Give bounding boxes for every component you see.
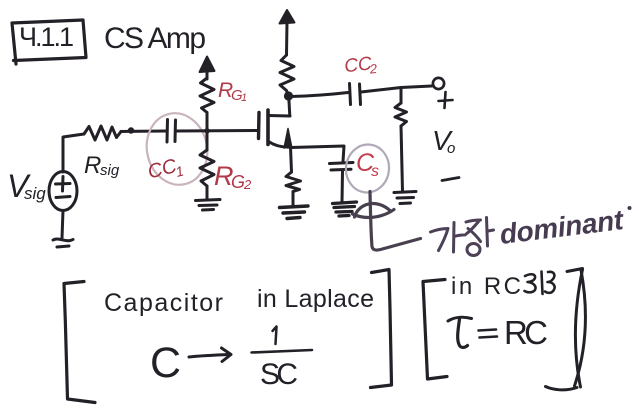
formula C [150, 339, 181, 387]
formula text in RC [451, 273, 521, 300]
formula bracket left [64, 282, 95, 403]
capacitor CC1 [167, 120, 176, 143]
voltage source Vsig [49, 172, 77, 211]
ground (source) [53, 239, 73, 247]
svg-text:CS Amp: CS Amp [104, 22, 206, 55]
svg-text:2: 2 [368, 61, 379, 77]
svg-text:s: s [371, 163, 379, 180]
resistor RL [395, 103, 407, 126]
svg-text:in RC: in RC [451, 273, 521, 300]
wire CC1 to gate [176, 129, 258, 133]
svg-text:G: G [231, 172, 245, 192]
wire source to RS [291, 147, 292, 172]
label Vsig [7, 168, 46, 204]
wire CS to ground [341, 172, 345, 203]
title label 4.1.1 [19, 22, 74, 52]
label CC1 [145, 154, 185, 187]
annotation circle around CC1 [140, 108, 214, 191]
wire source to CS [291, 146, 344, 162]
ground (RG2) [196, 200, 221, 211]
resistor RD [280, 55, 294, 96]
annotation arrow line [370, 192, 421, 251]
formula text 회로 (hangul strokes) [525, 272, 555, 295]
svg-text:sig: sig [100, 162, 120, 179]
output terminal [433, 78, 444, 89]
capacitor CS [330, 163, 354, 171]
formula tau [448, 317, 472, 347]
wire RG1 to RG2 [206, 113, 209, 151]
resistor RG1 [200, 78, 214, 113]
label + [439, 92, 453, 108]
wire Rsig to CC1 [121, 130, 166, 134]
formula bracket 2 right [546, 269, 586, 390]
label minus [442, 178, 459, 181]
ground (RS) [280, 206, 309, 219]
node input junction [128, 127, 134, 133]
label Rsig [84, 152, 120, 179]
svg-text:Capacitor: Capacitor [104, 289, 223, 317]
label RG1 [218, 79, 247, 104]
svg-text:SC: SC [260, 358, 298, 391]
svg-text:2: 2 [243, 177, 252, 192]
annotation arrow head under CS [353, 204, 395, 218]
svg-text:dominant: dominant [498, 204, 627, 250]
capacitor CC2 [350, 84, 361, 105]
resistor RS [286, 172, 301, 192]
ground (RL) [394, 192, 416, 204]
svg-text:RC: RC [504, 314, 548, 351]
wire Vsig top to Rsig [63, 134, 84, 172]
node gate bias junction [204, 128, 210, 134]
resistor Rsig [84, 126, 121, 140]
wire RG2 to ground [206, 186, 209, 199]
label CS [356, 149, 379, 180]
ground (CS) [333, 202, 357, 216]
label RG2 [214, 161, 252, 192]
power VDD arrow (bias) [200, 57, 215, 80]
formula RC [504, 314, 548, 351]
svg-text:o: o [447, 140, 455, 157]
formula bracket right [371, 270, 392, 388]
formula equals [479, 330, 498, 338]
wire output to RL [400, 88, 403, 104]
wire RL to ground [401, 126, 403, 191]
formula bracket 2 left [423, 280, 447, 380]
node drain [284, 91, 293, 100]
formula arrow [189, 348, 231, 362]
wire drain to CC2 [291, 93, 349, 97]
annotation text 가장 (hangul strokes) [431, 218, 494, 256]
svg-text:in Laplace: in Laplace [257, 285, 374, 313]
title CS Amp [104, 22, 206, 55]
wire drain up [289, 98, 290, 117]
label CC2 [343, 53, 378, 79]
transistor M1 (NMOS) [259, 110, 292, 148]
wire CC2 to output [361, 86, 432, 92]
formula text Capacitor in Laplace [104, 285, 374, 317]
svg-text:sig: sig [24, 184, 46, 203]
resistor RG2 [200, 150, 214, 186]
annotation circle around CS [344, 142, 392, 194]
wire Vsig bottom to ground [62, 211, 63, 239]
svg-text:Ч.1.1: Ч.1.1 [19, 22, 74, 52]
svg-text:C: C [150, 339, 181, 387]
annotation text dominant [498, 204, 632, 250]
wire RS to ground [292, 192, 295, 207]
svg-text:R: R [84, 152, 101, 179]
svg-text:1: 1 [241, 92, 247, 104]
label Vo [432, 125, 455, 157]
power VDD arrow (drain) [280, 10, 295, 55]
title box 4.1.1 [12, 20, 86, 64]
formula fraction 1/SC [252, 327, 313, 353]
